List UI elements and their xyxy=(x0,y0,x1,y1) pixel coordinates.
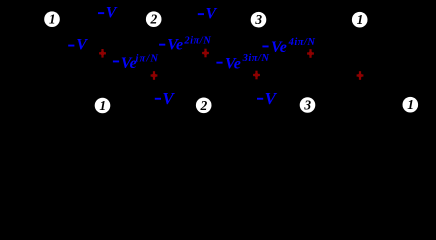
coupling label -V (bottom bond 2-3) xyxy=(257,89,278,108)
site 3 (top row) xyxy=(251,12,267,28)
site 1 (top row, repeated) xyxy=(352,12,368,28)
svg-text:3: 3 xyxy=(303,98,311,113)
site 2 (top row) xyxy=(146,11,162,27)
svg-text:3: 3 xyxy=(254,12,262,27)
svg-text:Ve: Ve xyxy=(271,39,287,56)
svg-text:V: V xyxy=(162,89,175,108)
svg-text:iπ/N: iπ/N xyxy=(136,53,160,64)
site 2 (bottom row) xyxy=(196,98,212,114)
site 3 (bottom row) xyxy=(300,97,316,113)
svg-text:V: V xyxy=(106,5,118,22)
svg-text:2iπ/N: 2iπ/N xyxy=(183,35,211,46)
coupling label -V (diagonal bond, left) xyxy=(68,37,88,54)
site 1 (bottom row, repeated) xyxy=(403,97,419,113)
svg-text:Ve: Ve xyxy=(167,37,183,54)
coupling label -Ve^(i pi/N) xyxy=(113,53,159,72)
chirality marker star 1 xyxy=(99,49,106,58)
svg-text:V: V xyxy=(265,89,278,108)
coupling label -Ve^(4i pi/N) xyxy=(262,37,315,56)
svg-text:Ve: Ve xyxy=(121,55,137,72)
chirality marker star 6 xyxy=(357,71,364,80)
coupling label -V (top bond 1-2) xyxy=(98,5,118,22)
svg-text:1: 1 xyxy=(99,98,106,113)
coupling label -Ve^(3i pi/N) xyxy=(216,53,269,73)
svg-text:1: 1 xyxy=(407,97,414,112)
coupling label -V (top bond 2-3) xyxy=(198,6,218,23)
svg-text:2: 2 xyxy=(150,12,158,27)
chirality marker star 2 xyxy=(151,71,158,80)
site 1 (bottom row, first) xyxy=(95,98,111,114)
coupling label -Ve^(2i pi/N) xyxy=(159,35,211,53)
coupling label -V (bottom bond 1-2) xyxy=(155,89,176,108)
chirality marker star 4 xyxy=(253,71,260,80)
chirality marker star 5 xyxy=(307,49,314,58)
svg-text:V: V xyxy=(76,37,88,54)
svg-text:3iπ/N: 3iπ/N xyxy=(242,53,270,64)
chirality marker star 3 xyxy=(202,49,209,58)
svg-text:4iπ/N: 4iπ/N xyxy=(288,37,316,48)
svg-text:1: 1 xyxy=(357,12,364,27)
site 1 (top row, first) xyxy=(44,11,60,27)
svg-text:V: V xyxy=(206,6,218,23)
svg-text:2: 2 xyxy=(200,98,208,113)
svg-text:Ve: Ve xyxy=(225,56,241,73)
svg-text:1: 1 xyxy=(49,12,56,27)
